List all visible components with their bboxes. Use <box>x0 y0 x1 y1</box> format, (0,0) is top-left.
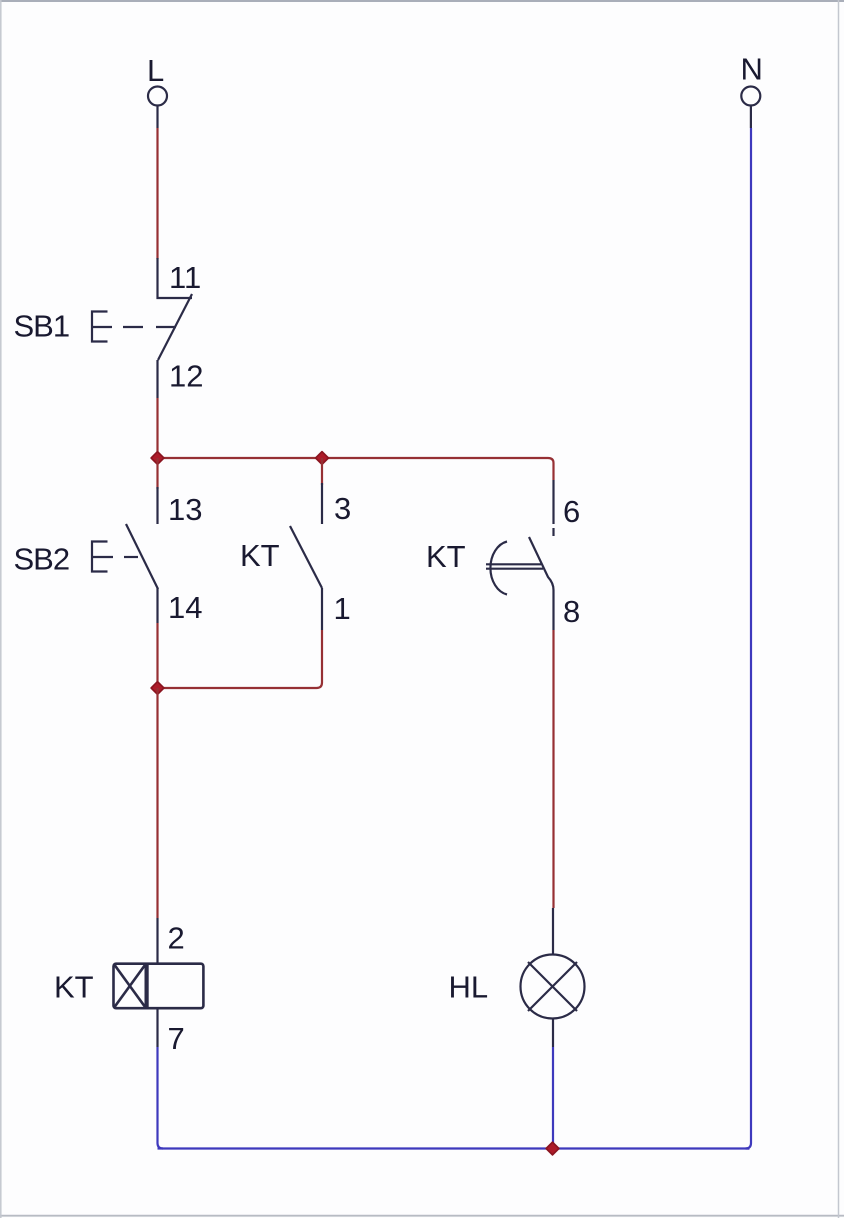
pin stub below L terminal <box>156 106 158 129</box>
bottom neutral rail wire <box>158 1147 750 1149</box>
pin stub below N terminal <box>750 106 752 129</box>
svg-text:13: 13 <box>168 492 202 527</box>
node C junction dot <box>151 682 164 695</box>
wire SB1 pin 12 to junction A <box>156 398 158 458</box>
wire KT pin 8 to lamp HL <box>552 590 554 630</box>
lamp HL <box>521 955 585 1019</box>
switch SB2 (NO pushbutton) <box>126 487 158 623</box>
svg-text:2: 2 <box>168 921 185 956</box>
wire junction A to SB2 pin 13 <box>156 458 158 489</box>
svg-text:KT: KT <box>54 970 94 1005</box>
node D junction dot <box>546 1142 559 1155</box>
SB2 pushbutton actuator <box>92 542 138 572</box>
svg-text:KT: KT <box>426 539 466 574</box>
svg-text:6: 6 <box>563 494 580 529</box>
terminal L <box>148 87 167 106</box>
node A junction dot <box>151 452 164 465</box>
wire junction row (rung feed) <box>158 458 554 480</box>
relay coil KT (timer) <box>114 964 204 1009</box>
svg-text:KT: KT <box>240 538 280 573</box>
svg-text:N: N <box>741 52 763 87</box>
drawing frame border right edge <box>838 0 840 1218</box>
wire SB2 pin 14 to junction C <box>156 623 158 688</box>
wire lamp HL to bottom rail <box>552 1047 554 1149</box>
svg-text:SB2: SB2 <box>14 542 70 577</box>
svg-text:1: 1 <box>334 591 351 626</box>
switch SB1 (NC pushbutton) <box>158 258 193 398</box>
drawing frame border top edge <box>0 0 844 2</box>
contact KT (timed NC contact, pins 6-8) <box>529 480 554 590</box>
terminal N <box>741 87 760 106</box>
KT coil pin 7 stub <box>156 1009 158 1047</box>
SB1 pushbutton actuator <box>92 312 176 342</box>
wire L terminal to SB1 pin 11 <box>156 128 158 259</box>
svg-text:14: 14 <box>168 590 202 625</box>
wire N rail <box>746 128 752 1149</box>
node B junction dot <box>316 452 329 465</box>
wire junction C to KT coil pin 2 <box>156 688 158 918</box>
svg-text:L: L <box>147 53 164 88</box>
lamp HL pin stub bottom <box>552 1019 554 1048</box>
svg-text:8: 8 <box>563 594 580 629</box>
svg-text:12: 12 <box>169 359 203 394</box>
drawing frame border left edge <box>0 0 2 1218</box>
lamp HL pin stub top <box>552 908 554 955</box>
svg-text:3: 3 <box>334 491 351 526</box>
wire KT pin 1 down to junction C rung <box>158 630 323 688</box>
svg-text:SB1: SB1 <box>14 309 70 344</box>
svg-text:7: 7 <box>168 1021 185 1056</box>
svg-text:HL: HL <box>449 970 489 1005</box>
KT time-delay symbol (half-moon with bars) <box>486 542 543 595</box>
wire KT coil to bottom rail <box>158 1047 164 1149</box>
contact KT (NO auxiliary contact, pins 3-1) <box>290 483 322 630</box>
KT coil pin 2 stub <box>156 918 158 964</box>
wire junction B to KT contact pin 3 <box>321 458 323 485</box>
drawing frame border bottom edge <box>0 1215 844 1217</box>
svg-text:11: 11 <box>169 260 201 295</box>
